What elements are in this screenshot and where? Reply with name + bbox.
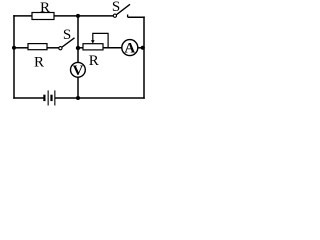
battery B1 plate long(+) left — [48, 90, 49, 105]
wire left edge — [13, 16, 15, 98]
wire top-left segment — [14, 15, 32, 17]
wire right edge — [143, 17, 145, 98]
wire middle node to rheostat — [78, 47, 82, 49]
svg-text:R: R — [40, 0, 50, 16]
wire top-middle segment — [54, 15, 113, 17]
wire top-right segment — [128, 16, 144, 18]
battery B1 plate short(-) right — [50, 95, 52, 101]
switch S1 (top) — [113, 4, 130, 17]
voltmeter V — [71, 62, 86, 77]
wire rheostat to ammeter — [103, 47, 122, 49]
svg-text:R: R — [89, 53, 99, 69]
wire voltmeter upper lead — [77, 48, 79, 63]
switch S2 (middle branch) — [59, 38, 75, 50]
battery B1 plate short(-) left — [43, 95, 45, 101]
wire bottom-left segment — [14, 97, 43, 99]
ammeter A — [122, 40, 138, 56]
wire bottom-right segment — [55, 97, 144, 99]
node bottom (junction dot) — [76, 96, 80, 100]
wire voltmeter lower lead — [77, 77, 79, 98]
svg-text:S: S — [63, 27, 71, 43]
wire middle branch box-to-switch — [47, 47, 59, 49]
node left-middle (junction dot) — [12, 46, 16, 50]
battery B1 plate long(+) right — [54, 90, 55, 105]
wire middle branch left — [14, 47, 28, 49]
rheostat R3 box — [83, 44, 103, 50]
resistor R1 (top) — [32, 13, 54, 20]
svg-text:S: S — [112, 0, 120, 15]
svg-text:V: V — [72, 63, 83, 79]
rheostat R3 slider arrowhead — [91, 40, 95, 44]
wire ammeter to right edge — [138, 47, 144, 49]
svg-text:R: R — [34, 54, 44, 70]
svg-text:A: A — [124, 41, 135, 57]
node right (junction dot) — [141, 46, 145, 50]
resistor R2 (middle branch) — [28, 44, 47, 50]
wire vertical from top node to middle node — [77, 16, 79, 48]
node top (junction dot) — [76, 14, 80, 18]
rheostat R3 slider arm — [93, 33, 108, 47]
node middle (junction dot) — [76, 46, 80, 50]
